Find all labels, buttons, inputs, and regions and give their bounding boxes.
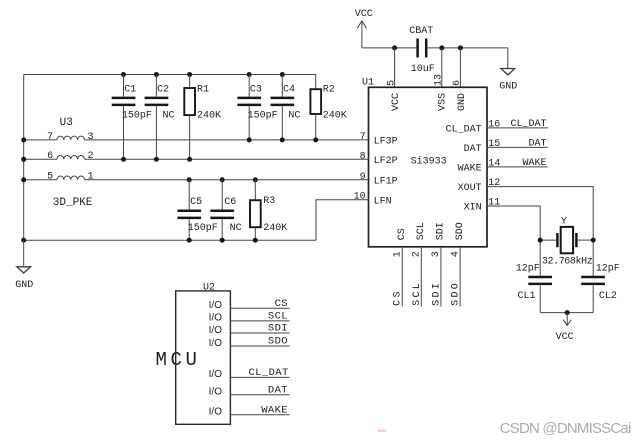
wire VCC bus left of CBAT (362, 47, 417, 49)
wire MCU CL_DAT (230, 376, 289, 378)
svg-text:C5: C5 (190, 197, 202, 208)
svg-text:XIN: XIN (464, 203, 482, 214)
resistor R1 (184, 75, 221, 160)
wire MCU DAT (230, 394, 289, 396)
wire pin 12 XOUT to crystal right (487, 187, 593, 277)
svg-text:SDO: SDO (455, 222, 466, 240)
junction dot crystal right (591, 238, 596, 243)
svg-text:CL1: CL1 (518, 291, 536, 302)
svg-text:6: 6 (452, 80, 463, 86)
svg-text:MCU: MCU (156, 349, 201, 371)
svg-text:I/O: I/O (209, 338, 223, 349)
svg-text:8: 8 (360, 152, 366, 163)
svg-text:16: 16 (488, 120, 500, 131)
svg-text:XOUT: XOUT (458, 183, 482, 194)
resistor R2 (310, 85, 346, 140)
wire VCC bus right of CBAT to GND (427, 48, 508, 69)
wire MCU SDO (230, 345, 289, 347)
svg-text:I/O: I/O (209, 407, 223, 418)
junction dot C4 bottom (280, 137, 285, 142)
svg-text:CS: CS (275, 298, 288, 310)
wire pin 11 XIN to crystal left (487, 206, 540, 276)
wire bottom bus (24, 239, 316, 241)
capacitor C4 (271, 75, 301, 140)
junction dot C3 top (247, 72, 252, 77)
svg-text:NC: NC (230, 223, 242, 234)
svg-text:10uF: 10uF (411, 64, 435, 75)
svg-text:10: 10 (354, 192, 366, 203)
power flag VCC top (355, 9, 373, 48)
capacitor CL2 (581, 263, 620, 312)
svg-text:WAKE: WAKE (522, 158, 546, 169)
junction dot pin13/VSS (439, 45, 444, 50)
svg-text:CL_DAT: CL_DAT (248, 367, 288, 379)
svg-text:LF1P: LF1P (374, 176, 398, 187)
wire LFN pin10 to bottom bus (316, 200, 369, 240)
svg-text:3: 3 (88, 132, 94, 143)
junction dot C2 bottom (154, 157, 159, 162)
junction dot C1 bottom (121, 157, 126, 162)
svg-text:CS: CS (397, 228, 408, 240)
svg-text:R1: R1 (197, 85, 209, 96)
svg-text:VCC: VCC (556, 332, 574, 343)
wire top-left bus to R2 (24, 75, 316, 90)
svg-text:WAKE: WAKE (458, 163, 482, 174)
svg-text:12: 12 (488, 178, 500, 189)
svg-text:32.768kHz: 32.768kHz (542, 256, 593, 268)
svg-text:VCC: VCC (355, 9, 373, 20)
svg-text:150pF: 150pF (122, 110, 152, 121)
capacitor C2 (145, 75, 175, 160)
svg-text:R2: R2 (323, 85, 335, 96)
MCU U2 body (176, 291, 231, 424)
junction dot pin6/GND (458, 45, 463, 50)
svg-text:C2: C2 (157, 85, 169, 96)
svg-text:I/O: I/O (209, 313, 223, 324)
inductor U3 winding 6-2 row (24, 117, 369, 162)
junction dot C2 top (154, 72, 159, 77)
ground GND right (499, 69, 517, 93)
junction dot C6 top (220, 177, 225, 182)
svg-text:14: 14 (488, 159, 500, 170)
capacitor C3 (237, 75, 277, 140)
wire MCU SDI (230, 332, 289, 334)
inductor U3 winding 5-1 row (24, 172, 369, 183)
wire pin 3 SDI (440, 247, 442, 307)
wire MCU SCL (230, 320, 289, 322)
svg-text:1: 1 (88, 172, 94, 183)
capacitor C6 (210, 180, 241, 240)
wire left vertical bus (23, 75, 25, 241)
junction dot crystal left (538, 238, 543, 243)
svg-text:9: 9 (360, 172, 366, 183)
junction dot row3 left (21, 177, 26, 182)
svg-text:NC: NC (288, 110, 300, 121)
wire pin 16 CL_DAT (487, 127, 548, 129)
inductor U3 winding 7-3 row (24, 132, 369, 143)
svg-text:150pF: 150pF (248, 110, 278, 121)
svg-text:7: 7 (360, 132, 366, 143)
wire pin 2 SCL (420, 247, 422, 307)
svg-text:CBAT: CBAT (409, 26, 433, 37)
junction dot R2 bottom (313, 137, 318, 142)
svg-text:U3: U3 (60, 117, 73, 129)
svg-text:5: 5 (47, 172, 53, 183)
svg-text:I/O: I/O (209, 300, 223, 311)
svg-text:LF2P: LF2P (374, 156, 398, 167)
watermark pink dash (378, 430, 387, 432)
svg-text:12pF: 12pF (596, 263, 620, 274)
svg-text:C3: C3 (250, 85, 262, 96)
ground GND left (15, 240, 33, 291)
svg-text:I/O: I/O (209, 387, 223, 398)
wire MCU WAKE (230, 414, 289, 416)
junction dot R1 bottom (187, 157, 192, 162)
svg-text:3D_PKE: 3D_PKE (53, 197, 93, 209)
svg-text:GND: GND (499, 82, 517, 93)
svg-text:C1: C1 (124, 85, 136, 96)
svg-text:Si3933: Si3933 (411, 156, 447, 168)
svg-text:240K: 240K (197, 110, 221, 121)
resistor R3 (250, 180, 287, 240)
svg-text:SCL: SCL (416, 222, 427, 240)
svg-text:LF3P: LF3P (374, 137, 398, 148)
svg-text:240K: 240K (323, 110, 347, 121)
svg-text:CL_DAT: CL_DAT (510, 119, 546, 130)
wire pin 13 stub (441, 48, 443, 87)
junction dot R3 bottom (253, 238, 258, 243)
svg-text:R3: R3 (263, 196, 275, 207)
svg-text:2: 2 (88, 151, 94, 162)
junction dot C4 top (280, 72, 285, 77)
wire MCU CS (230, 307, 289, 309)
junction dot R1 top (187, 72, 192, 77)
wire pin 5 stub (394, 48, 396, 87)
svg-text:I/O: I/O (209, 325, 223, 336)
svg-text:15: 15 (488, 139, 500, 150)
svg-text:DAT: DAT (464, 144, 482, 155)
svg-text:DAT: DAT (268, 384, 288, 396)
svg-text:6: 6 (47, 151, 53, 162)
junction dot pin5/VCC (392, 45, 397, 50)
svg-text:SDI: SDI (268, 323, 288, 335)
wire crystal VCC bus (540, 312, 593, 314)
svg-text:GND: GND (457, 93, 468, 111)
wire pin 14 WAKE (487, 166, 548, 168)
capacitor CBAT (409, 26, 435, 75)
svg-text:SCL: SCL (412, 281, 423, 306)
svg-text:C6: C6 (224, 197, 236, 208)
junction dot row1 left (21, 137, 26, 142)
svg-text:12pF: 12pF (516, 263, 540, 274)
svg-text:GND: GND (15, 280, 33, 291)
svg-text:CSDN @DNMISSCai: CSDN @DNMISSCai (500, 420, 631, 437)
junction dot bottom bus left (21, 238, 26, 243)
svg-text:C4: C4 (283, 85, 295, 96)
junction dot C5 bottom (187, 238, 192, 243)
junction dot C6 bottom (220, 238, 225, 243)
svg-text:11: 11 (488, 198, 500, 209)
svg-text:SDO: SDO (268, 336, 288, 348)
IC U1 Si3933 body (369, 87, 488, 247)
svg-text:VSS: VSS (438, 93, 449, 111)
svg-text:13: 13 (434, 74, 445, 86)
svg-text:I/O: I/O (209, 369, 223, 380)
capacitor C5 (177, 180, 217, 240)
junction dot C1 top (121, 72, 126, 77)
junction dot row2 left (21, 157, 26, 162)
svg-text:CL2: CL2 (599, 291, 617, 302)
svg-text:LFN: LFN (374, 196, 392, 207)
svg-text:150pF: 150pF (188, 223, 218, 234)
capacitor C1 (112, 75, 152, 160)
svg-text:7: 7 (47, 132, 53, 143)
power flag VCC bottom (556, 313, 574, 343)
svg-text:WAKE: WAKE (261, 404, 288, 416)
junction dot R3 top (253, 177, 258, 182)
wire pin 6 stub (459, 48, 461, 87)
svg-text:5: 5 (386, 80, 397, 86)
svg-text:NC: NC (163, 110, 175, 121)
junction dot VCC bottom (565, 310, 570, 315)
svg-text:VCC: VCC (391, 93, 402, 111)
svg-text:CS: CS (393, 289, 404, 306)
wire pin 1 CS (401, 247, 403, 307)
capacitor CL1 (516, 263, 552, 312)
svg-text:240K: 240K (263, 223, 287, 234)
wire pin 15 DAT (487, 146, 548, 148)
svg-text:CL_DAT: CL_DAT (446, 124, 482, 135)
svg-text:DAT: DAT (528, 139, 546, 150)
svg-text:SCL: SCL (268, 311, 288, 323)
svg-text:SDO: SDO (451, 281, 462, 306)
crystal Y1 (540, 217, 593, 268)
wire pin 4 SDO (459, 247, 461, 307)
junction dot C3 bottom (247, 137, 252, 142)
svg-text:SDI: SDI (431, 281, 442, 306)
junction dot C5 top (187, 177, 192, 182)
svg-text:SDI: SDI (436, 222, 447, 240)
